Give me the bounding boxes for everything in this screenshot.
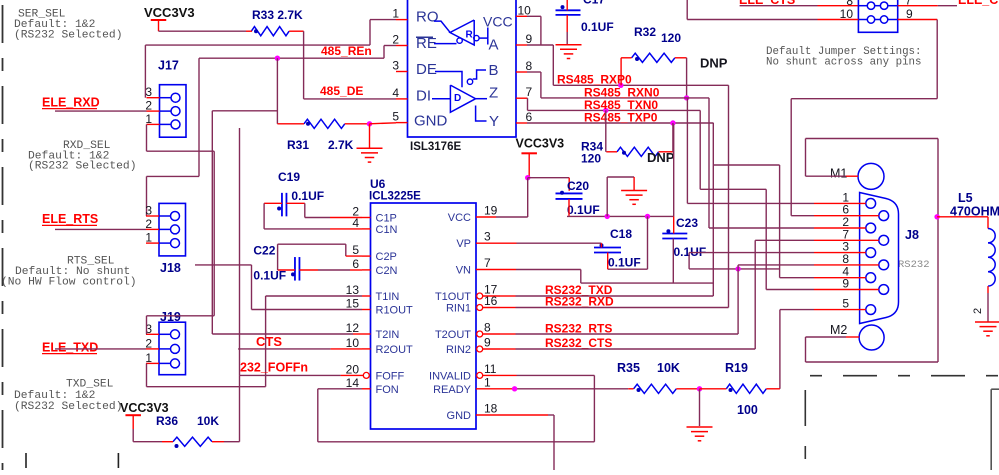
svg-text:B: B xyxy=(489,62,499,79)
svg-text:120: 120 xyxy=(661,31,681,45)
svg-text:DNP: DNP xyxy=(647,150,675,165)
svg-text:16: 16 xyxy=(484,294,498,308)
svg-text:T2OUT: T2OUT xyxy=(435,329,471,341)
svg-text:DI: DI xyxy=(416,88,431,105)
svg-text:VN: VN xyxy=(456,265,471,277)
svg-text:1: 1 xyxy=(392,7,399,21)
svg-text:RS232_CTS: RS232_CTS xyxy=(545,336,612,350)
svg-text:M2: M2 xyxy=(830,323,847,337)
svg-text:RIN2: RIN2 xyxy=(446,344,471,356)
svg-text:C1N: C1N xyxy=(376,224,398,236)
svg-text:RS232: RS232 xyxy=(898,259,930,271)
svg-text:9: 9 xyxy=(484,336,491,350)
svg-text:2: 2 xyxy=(972,308,984,314)
svg-text:DNP: DNP xyxy=(700,56,728,71)
svg-text:5: 5 xyxy=(392,110,399,124)
svg-text:C17: C17 xyxy=(583,0,605,7)
svg-text:U6: U6 xyxy=(370,177,386,191)
svg-text:13: 13 xyxy=(346,283,360,297)
svg-text:L5: L5 xyxy=(958,191,973,205)
svg-text:18: 18 xyxy=(484,402,498,416)
svg-text:R33 2.7K: R33 2.7K xyxy=(252,8,303,22)
svg-text:1: 1 xyxy=(145,231,152,245)
svg-text:C20: C20 xyxy=(567,179,589,193)
svg-text:R: R xyxy=(466,30,474,41)
svg-text:ICL3225E: ICL3225E xyxy=(369,191,421,203)
svg-text:VCC: VCC xyxy=(448,212,471,224)
svg-text:20: 20 xyxy=(346,362,360,376)
svg-text:6: 6 xyxy=(352,257,359,271)
svg-text:0.1UF: 0.1UF xyxy=(608,256,641,270)
svg-text:8: 8 xyxy=(842,252,849,266)
svg-text:C2N: C2N xyxy=(376,265,398,277)
svg-text:7: 7 xyxy=(842,227,849,241)
svg-text:Y: Y xyxy=(489,113,499,130)
svg-text:2: 2 xyxy=(145,336,152,350)
svg-text:485_REn: 485_REn xyxy=(321,44,372,58)
svg-text:VCC: VCC xyxy=(483,14,513,30)
svg-text:FON: FON xyxy=(376,384,399,396)
svg-text:10K: 10K xyxy=(657,361,680,375)
svg-text:2: 2 xyxy=(145,217,152,231)
svg-text:J19: J19 xyxy=(160,310,181,324)
svg-text:7: 7 xyxy=(484,256,491,270)
svg-text:INVALID: INVALID xyxy=(429,370,471,382)
svg-text:7: 7 xyxy=(526,85,533,99)
svg-text:A: A xyxy=(489,37,499,54)
svg-text:12: 12 xyxy=(346,321,360,335)
svg-text:R35: R35 xyxy=(617,361,640,375)
svg-text:8: 8 xyxy=(526,59,533,73)
svg-text:RS232_RXD: RS232_RXD xyxy=(545,295,614,309)
svg-text:14: 14 xyxy=(346,376,360,390)
svg-text:6: 6 xyxy=(526,110,533,124)
svg-text:3: 3 xyxy=(145,204,152,218)
svg-text:1: 1 xyxy=(484,375,491,389)
svg-text:FOFF: FOFF xyxy=(376,370,405,382)
svg-text:T1OUT: T1OUT xyxy=(435,291,471,303)
svg-text:ISL3176E: ISL3176E xyxy=(410,141,461,153)
svg-text:8: 8 xyxy=(484,321,491,335)
svg-text:J18: J18 xyxy=(160,261,181,275)
svg-text:3: 3 xyxy=(145,85,152,99)
svg-text:4: 4 xyxy=(392,86,399,100)
svg-text:10: 10 xyxy=(346,336,360,350)
svg-text:1: 1 xyxy=(145,351,152,365)
svg-text:9: 9 xyxy=(842,277,849,291)
svg-text:C2P: C2P xyxy=(376,251,397,263)
svg-text:ELE_RXD: ELE_RXD xyxy=(42,96,100,110)
svg-text:READY: READY xyxy=(433,384,472,396)
svg-text:R2OUT: R2OUT xyxy=(376,344,414,356)
svg-text:C22: C22 xyxy=(253,244,275,258)
svg-text:2.7K: 2.7K xyxy=(328,138,354,152)
svg-text:RIN1: RIN1 xyxy=(446,303,471,315)
svg-text:5: 5 xyxy=(842,297,849,311)
svg-text:R31: R31 xyxy=(287,138,309,152)
svg-text:0.1UF: 0.1UF xyxy=(581,20,614,34)
svg-text:J8: J8 xyxy=(905,228,919,242)
svg-text:0.1UF: 0.1UF xyxy=(567,203,600,217)
svg-text:ELE_CTS: ELE_CTS xyxy=(958,0,999,7)
svg-text:C23: C23 xyxy=(676,216,698,230)
svg-text:R32: R32 xyxy=(634,25,656,39)
svg-text:C1P: C1P xyxy=(376,213,397,225)
svg-text:(No HW Flow control): (No HW Flow control) xyxy=(1,277,137,289)
svg-text:GND: GND xyxy=(447,410,472,422)
svg-text:RO: RO xyxy=(416,9,439,26)
svg-text:(RS232 Selected): (RS232 Selected) xyxy=(14,30,122,42)
svg-text:VP: VP xyxy=(456,238,471,250)
svg-text:T2IN: T2IN xyxy=(376,329,400,341)
svg-text:CTS: CTS xyxy=(256,334,282,349)
svg-text:232_FOFFn: 232_FOFFn xyxy=(240,361,308,375)
svg-text:1: 1 xyxy=(145,112,152,126)
svg-text:R36: R36 xyxy=(156,414,178,428)
svg-text:0.1UF: 0.1UF xyxy=(291,189,324,203)
svg-text:GND: GND xyxy=(414,113,448,130)
svg-text:100: 100 xyxy=(737,403,758,417)
svg-text:485_DE: 485_DE xyxy=(320,84,363,98)
svg-text:3: 3 xyxy=(484,230,491,244)
svg-text:(RS232 Selected): (RS232 Selected) xyxy=(28,161,136,173)
svg-text:TXD_SEL: TXD_SEL xyxy=(66,379,114,391)
svg-text:10K: 10K xyxy=(197,414,219,428)
svg-text:9: 9 xyxy=(526,32,533,46)
svg-text:19: 19 xyxy=(484,204,498,218)
svg-text:11: 11 xyxy=(484,362,497,376)
svg-text:C18: C18 xyxy=(610,227,632,241)
svg-text:RS485_TXP0: RS485_TXP0 xyxy=(584,110,658,124)
svg-text:3: 3 xyxy=(392,59,399,73)
svg-text:M1: M1 xyxy=(830,167,847,181)
svg-text:ELE_TXD: ELE_TXD xyxy=(42,341,98,355)
svg-text:VCC3V3: VCC3V3 xyxy=(120,401,169,415)
svg-text:15: 15 xyxy=(346,297,360,311)
svg-text:(RS232 Selected): (RS232 Selected) xyxy=(14,401,122,413)
svg-text:5: 5 xyxy=(352,243,359,257)
svg-text:C19: C19 xyxy=(278,170,300,184)
svg-text:6: 6 xyxy=(842,203,849,217)
svg-text:J17: J17 xyxy=(158,59,179,73)
svg-text:10: 10 xyxy=(518,3,532,17)
svg-text:DE: DE xyxy=(416,61,437,78)
svg-text:T1IN: T1IN xyxy=(376,291,400,303)
svg-text:R1OUT: R1OUT xyxy=(376,305,414,317)
svg-text:D: D xyxy=(454,93,461,104)
svg-text:No shunt across any pins: No shunt across any pins xyxy=(766,57,922,69)
svg-text:R19: R19 xyxy=(725,361,748,375)
svg-text:120: 120 xyxy=(581,152,601,166)
svg-text:VCC3V3: VCC3V3 xyxy=(144,5,195,20)
svg-text:2: 2 xyxy=(392,33,399,47)
svg-text:ELE_RTS: ELE_RTS xyxy=(42,212,98,226)
svg-text:Z: Z xyxy=(489,85,498,102)
svg-text:VCC3V3: VCC3V3 xyxy=(516,137,565,151)
